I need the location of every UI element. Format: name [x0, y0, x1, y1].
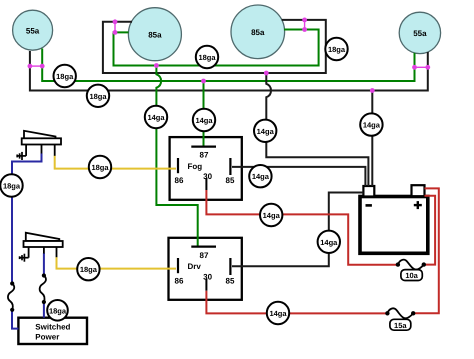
- gauge label 14ga drv30: [267, 302, 289, 324]
- blue wire dots: [10, 273, 46, 312]
- svg-text:18ga: 18ga: [89, 92, 107, 101]
- svg-text:Switched: Switched: [35, 322, 70, 331]
- svg-text:Power: Power: [35, 332, 59, 341]
- relay U1 Fog box: [170, 137, 242, 200]
- Drv pin 87 bar: [191, 246, 216, 248]
- switch S1 pin left: [25, 145, 27, 156]
- junction node lamp2 drop: [154, 63, 159, 68]
- svg-text:Fog: Fog: [188, 162, 203, 171]
- ground S1: [17, 152, 26, 160]
- svg-text:14ga: 14ga: [257, 127, 275, 136]
- svg-text:85a: 85a: [148, 30, 162, 39]
- wire red battery plus to fuse 15a: [413, 188, 439, 313]
- wire Drv 85 to battery minus: [232, 193, 363, 267]
- switched power label: [35, 322, 70, 341]
- lamp 55a right: [399, 12, 440, 53]
- svg-text:18ga: 18ga: [3, 182, 21, 191]
- wire lamp1 green + green bus C + lamp4 green: [42, 49, 414, 82]
- fuse F1 10a squiggle: [398, 260, 424, 270]
- blue flex squiggle middle: [40, 276, 46, 303]
- wire blue left lower: [12, 310, 18, 329]
- gauge label 14ga lamp4: [360, 113, 382, 135]
- svg-text:14ga: 14ga: [269, 309, 287, 318]
- svg-text:10a: 10a: [405, 271, 418, 280]
- svg-text:14ga: 14ga: [263, 211, 281, 220]
- battery plus sign: [414, 201, 422, 209]
- battery minus sign: [366, 204, 372, 207]
- svg-text:18ga: 18ga: [198, 53, 216, 62]
- wire yellow switch1 to Fog 86: [55, 156, 176, 169]
- Fog pin 30 lead: [205, 178, 207, 190]
- gauge label 14ga lamp3: [254, 120, 276, 142]
- fuse F2 label 15a: [390, 319, 411, 330]
- svg-text:87: 87: [200, 150, 209, 159]
- switch S1 base: [22, 138, 61, 144]
- svg-text:85a: 85a: [251, 28, 265, 37]
- gauge label 18ga yellow2: [77, 258, 99, 280]
- svg-text:15a: 15a: [394, 321, 407, 330]
- wire red Fog 30 to fuse 10a: [206, 190, 398, 265]
- wire blue switch1 to switched power: [12, 154, 42, 282]
- Fog pin 87 bar: [191, 146, 216, 148]
- Fog pin 85 bar: [229, 158, 231, 175]
- gauge label 18ga wire4: [325, 38, 347, 60]
- lamp 85a left: [128, 8, 181, 61]
- gauge label 14ga drv87: [145, 106, 167, 128]
- relay U1 labels: [175, 150, 235, 185]
- svg-text:85: 85: [226, 277, 235, 286]
- connector link lamp3: [302, 18, 307, 32]
- gauge label 18ga yellow1: [89, 156, 111, 178]
- switch S1 lever: [24, 131, 56, 139]
- battery B1 box: [360, 197, 428, 254]
- gauge label 18ga wire1: [53, 65, 75, 87]
- gauge label 14ga fog30: [260, 204, 282, 226]
- svg-text:87: 87: [200, 251, 209, 260]
- blue flex squiggle left: [8, 284, 14, 310]
- Drv pin 30 lead: [205, 279, 207, 291]
- connector link lamp2: [113, 19, 118, 34]
- svg-text:14ga: 14ga: [320, 238, 338, 247]
- svg-text:86: 86: [175, 176, 184, 185]
- fuse F2 15a squiggle: [387, 308, 413, 318]
- switch S2 lever: [26, 233, 60, 241]
- gauge label 18ga wire3: [196, 46, 218, 68]
- svg-text:14ga: 14ga: [252, 172, 270, 181]
- svg-text:18ga: 18ga: [328, 45, 346, 54]
- junction node fog87 drop: [201, 79, 206, 84]
- ground S2: [19, 254, 28, 262]
- lamp 55a left: [13, 10, 53, 50]
- svg-text:Drv: Drv: [188, 262, 202, 271]
- switch S2 base: [24, 241, 63, 247]
- wire red battery plus to fuse 10a: [424, 196, 435, 265]
- battery minus terminal: [363, 186, 374, 197]
- wire lamp2 black + black bus B + lamp3 black: [103, 20, 326, 73]
- wire blue switch2 to switched power: [43, 253, 45, 276]
- wire yellow switch2 to Drv 86: [57, 257, 177, 269]
- junction node lamp3 drop: [264, 71, 269, 76]
- Fog pin 86 bar: [177, 158, 179, 173]
- battery plus terminal: [412, 185, 425, 196]
- svg-text:86: 86: [175, 277, 184, 286]
- svg-text:18ga: 18ga: [49, 306, 67, 315]
- relay U2 labels: [175, 251, 235, 286]
- wire black drop lamp3 to battery minus with jog over black bus: [266, 73, 368, 186]
- svg-text:18ga: 18ga: [56, 72, 74, 81]
- gauge label 14ga drv85: [318, 231, 340, 253]
- gauge label 18ga switched: [47, 300, 68, 321]
- Drv pin 85 bar: [229, 258, 231, 275]
- svg-text:30: 30: [203, 273, 212, 282]
- switch S2 pin middle: [43, 247, 45, 254]
- switch S1 pin middle: [41, 145, 43, 154]
- svg-text:18ga: 18ga: [80, 265, 98, 274]
- svg-text:14ga: 14ga: [363, 121, 381, 130]
- svg-text:55a: 55a: [26, 26, 40, 35]
- svg-text:14ga: 14ga: [147, 113, 165, 122]
- gauge label 18ga blue: [0, 174, 22, 196]
- switch S2 pin right: [56, 247, 58, 257]
- wire green drop to Drv 87 with jog over green bus: [156, 66, 197, 246]
- wire lamp1 black + black bus D + lamp4 black: [30, 51, 428, 91]
- switched power box: [18, 318, 87, 344]
- switch S2 pin left: [28, 247, 30, 258]
- svg-text:30: 30: [203, 172, 212, 181]
- svg-text:85: 85: [226, 176, 235, 185]
- wire Fog 85 to battery minus: [232, 167, 365, 186]
- svg-text:18ga: 18ga: [91, 163, 109, 172]
- wire blue middle lower: [43, 302, 45, 318]
- svg-text:14ga: 14ga: [195, 116, 213, 125]
- fuse F1 label 10a: [401, 270, 422, 281]
- Drv pin 86 bar: [177, 258, 179, 273]
- wire black drop lamp4 to battery minus: [371, 91, 373, 187]
- gauge label 14ga fog85: [249, 165, 271, 187]
- gauge label 18ga wire2: [87, 85, 109, 107]
- switch S1 pin right: [54, 145, 56, 156]
- relay U2 Drv box: [169, 238, 242, 300]
- fuse F1 dots: [396, 262, 426, 266]
- wire red Drv 30 to fuse 15a: [206, 291, 387, 314]
- svg-text:55a: 55a: [413, 29, 427, 38]
- connector link lamp1: [28, 64, 45, 69]
- wire lamp2 green + green bus A + lamp3 green: [114, 30, 319, 66]
- gauge label 14ga fog87: [193, 109, 215, 131]
- fuse F2 dots: [385, 311, 415, 315]
- connector link lamp4: [412, 65, 430, 70]
- wire green drop to Fog 87: [203, 81, 205, 146]
- lamp 85a right: [231, 5, 285, 59]
- junction node lamp4 drop: [370, 88, 375, 93]
